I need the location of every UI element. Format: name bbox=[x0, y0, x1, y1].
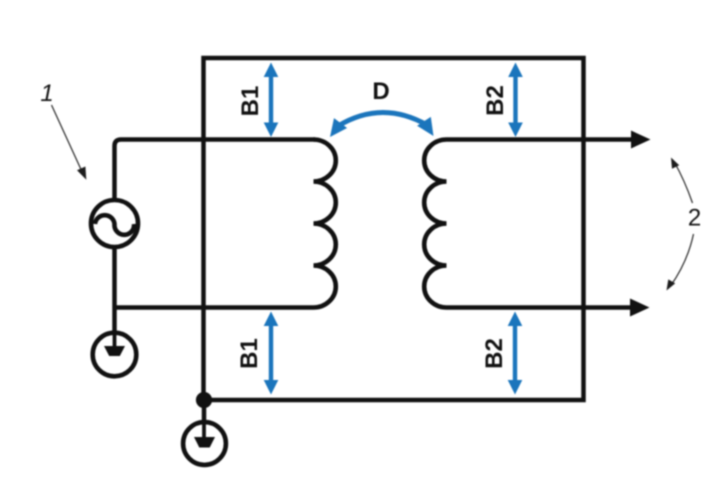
wire: top output with arrow bbox=[447, 137, 634, 142]
dimension arrow B1 bottom bbox=[264, 312, 279, 395]
leader arrow 2 lower bbox=[667, 234, 694, 291]
leader arrow 2 upper bbox=[671, 158, 693, 204]
svg-text:2: 2 bbox=[688, 205, 701, 232]
inductor L1 (left coil) bbox=[314, 140, 336, 308]
dimension arc D between coils bbox=[330, 112, 434, 137]
dimension arrow B1 top bbox=[264, 63, 279, 138]
AC source V1 bbox=[91, 200, 138, 247]
svg-text:B2: B2 bbox=[481, 338, 508, 369]
svg-text:B1: B1 bbox=[236, 338, 263, 369]
leader arrow for 1 bbox=[52, 105, 87, 180]
wire: bottom output with arrow bbox=[447, 305, 633, 310]
wire: dot to ground G2 bbox=[202, 400, 207, 424]
enclosure box bbox=[204, 58, 584, 400]
dimension arrow B2 bottom bbox=[508, 312, 523, 395]
wire: source ground drop bbox=[112, 308, 117, 335]
junction dot at box corner bbox=[196, 392, 212, 408]
ground G1 bbox=[93, 333, 137, 377]
dimension arrow B2 top bbox=[508, 63, 523, 138]
ground G2 bbox=[183, 422, 226, 465]
svg-text:B2: B2 bbox=[482, 85, 509, 116]
wire: bottom feed from source to left coil bbox=[115, 247, 314, 308]
svg-text:D: D bbox=[372, 78, 389, 105]
inductor L2 (right coil) bbox=[424, 140, 446, 308]
svg-text:B1: B1 bbox=[237, 86, 264, 117]
wire: top feed from source to left coil bbox=[115, 140, 316, 201]
svg-text:1: 1 bbox=[40, 80, 53, 107]
